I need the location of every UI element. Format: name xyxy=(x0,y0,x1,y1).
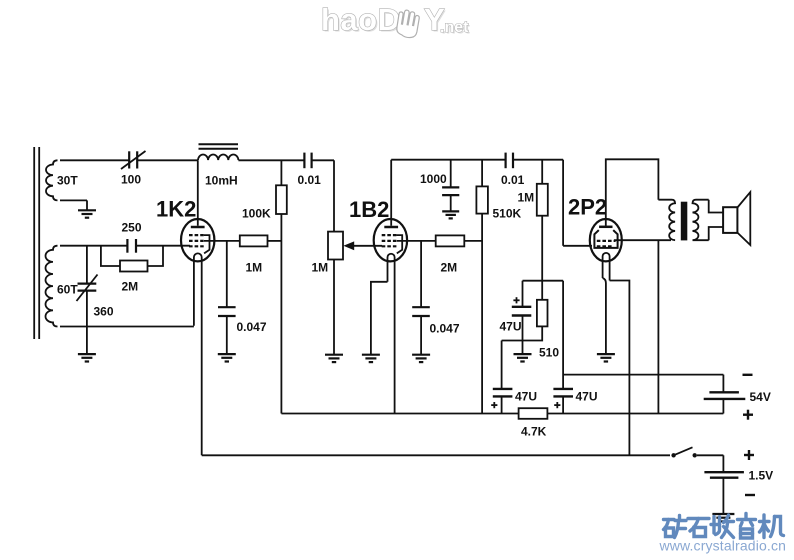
inductor 10mH xyxy=(198,154,238,160)
resistor 4.7K xyxy=(519,408,548,419)
2P2 screen wire xyxy=(614,239,671,241)
svg-text:1000: 1000 xyxy=(420,172,447,186)
svg-text:1M: 1M xyxy=(518,191,535,205)
1K2 grids (dashed) xyxy=(189,235,204,246)
switch S1 xyxy=(671,453,675,457)
47U node link xyxy=(523,280,564,282)
svg-text:10mH: 10mH xyxy=(205,174,238,188)
svg-text:1B2: 1B2 xyxy=(349,197,389,222)
svg-text:1.5V: 1.5V xyxy=(749,469,774,483)
1K2 filament xyxy=(194,253,202,455)
capacitor 47U (second, electrolytic) xyxy=(501,341,503,389)
tube U2 1B2 envelope xyxy=(374,219,407,261)
wire 510/47U to ground xyxy=(522,341,524,354)
capacitor 0.01 (first) xyxy=(304,153,311,169)
svg-text:1K2: 1K2 xyxy=(156,197,196,222)
wire 60T top (grid wire) xyxy=(60,245,127,247)
1B2 filament xyxy=(388,254,395,414)
2P2 anode bar xyxy=(599,226,612,229)
capacitor 0.01 (second) xyxy=(506,153,513,169)
wire 0.01 to 2P2 grid drop xyxy=(513,159,563,161)
output transformer T1 primary xyxy=(658,200,675,241)
wire 10mH to 0.01 xyxy=(238,159,304,161)
svg-text:60T: 60T xyxy=(57,283,78,297)
ground (tuning) xyxy=(78,354,96,361)
2P2 grids (dashed) xyxy=(597,241,616,246)
1B2 grids (dashed) xyxy=(382,235,397,246)
capacitor 0.047 (first) xyxy=(226,241,228,307)
svg-text:510: 510 xyxy=(539,346,559,360)
haoDIY.net watermark logo xyxy=(321,2,471,39)
ground (1.5V battery) xyxy=(712,514,734,521)
svg-text:0.047: 0.047 xyxy=(237,320,267,334)
2P2 plate riser xyxy=(606,159,659,225)
wire top rail left xyxy=(60,159,129,161)
pot wiper arrow to 1B2 grid xyxy=(352,245,382,247)
coil L1 30T xyxy=(46,160,58,200)
svg-text:47U: 47U xyxy=(500,320,522,334)
capacitor 250 xyxy=(127,239,136,253)
wire secondary to speaker xyxy=(709,200,723,213)
capacitor 47U (first, electrolytic) xyxy=(522,281,524,306)
ground (1B2 filament) xyxy=(362,355,380,362)
ground (47U/510) xyxy=(514,354,532,361)
1B2 filament left leg to ground xyxy=(371,282,388,354)
wire 30T bottom to ground xyxy=(60,199,87,201)
transformer core xyxy=(681,202,688,241)
resistor 2M (grid leak) loop xyxy=(101,246,120,266)
svg-text:2M: 2M xyxy=(122,280,139,294)
ground (2P2 filament) xyxy=(597,354,615,361)
svg-text:1M: 1M xyxy=(312,261,329,275)
wire 250 to 1K2 grid xyxy=(136,245,190,247)
potentiometer 1M (regeneration) xyxy=(328,232,343,260)
svg-text:250: 250 xyxy=(122,221,142,235)
1B2 plate riser xyxy=(390,160,392,226)
resistor 2M (1B2 grid) xyxy=(436,235,465,246)
svg-text:47U: 47U xyxy=(576,390,598,404)
wire 360 to ground xyxy=(86,327,88,354)
svg-text:510K: 510K xyxy=(493,207,522,221)
2P2 beam plates xyxy=(594,230,617,248)
screen/primary drop to B+ xyxy=(657,240,659,413)
resistor 100K xyxy=(280,160,282,185)
char kuang xyxy=(664,518,675,521)
trimmer capacitor 100 xyxy=(129,151,137,168)
watermark: crystalradio.cn blue logo xyxy=(664,514,784,539)
capacitor 47U (third, electrolytic) xyxy=(553,389,573,397)
resistor 1M (1K2 grid2) xyxy=(240,235,268,246)
2P2 filament to ground xyxy=(603,278,606,354)
battery 1.5V xyxy=(722,455,724,471)
svg-text:54V: 54V xyxy=(750,390,771,404)
capacitor 1000 xyxy=(450,160,452,187)
coil L2 60T xyxy=(45,246,57,327)
svg-text:100K: 100K xyxy=(242,207,271,221)
tube U1 1K2 envelope xyxy=(181,219,214,261)
1K2 output wire xyxy=(204,240,240,242)
tube U3 2P2 envelope xyxy=(590,219,622,261)
1B2 grid2 hook xyxy=(396,235,402,253)
2P2 filament feed wire xyxy=(610,281,630,456)
char ji xyxy=(762,515,765,538)
2P2 filament xyxy=(603,253,610,281)
svg-text:360: 360 xyxy=(94,305,114,319)
svg-text:0.01: 0.01 xyxy=(501,173,525,187)
ground (0.047 first) xyxy=(218,354,236,361)
svg-text:.net: .net xyxy=(440,19,469,36)
svg-text:2P2: 2P2 xyxy=(568,195,607,220)
wire 60T bottom xyxy=(60,326,194,328)
battery 54V xyxy=(722,375,724,392)
resistor 510 xyxy=(537,300,548,327)
ground (30T) xyxy=(78,210,96,217)
top rail B xyxy=(391,159,505,161)
char shi xyxy=(688,517,709,520)
1K2 grid2 hook xyxy=(204,235,210,253)
ground (pot) xyxy=(325,355,343,362)
svg-text:30T: 30T xyxy=(57,174,78,188)
1K2 anode bar xyxy=(191,226,205,229)
1B2 output wire xyxy=(397,240,436,242)
filament A+ bus xyxy=(202,454,670,456)
svg-text:www.crystalradio.cn: www.crystalradio.cn xyxy=(659,538,787,554)
B- bus xyxy=(563,374,723,376)
B+ bus xyxy=(281,413,723,415)
char yin xyxy=(744,514,747,519)
variable capacitor 360 xyxy=(86,246,88,284)
svg-text:100: 100 xyxy=(121,173,141,187)
resistor 1M (2P2 grid) xyxy=(541,160,543,184)
1B2 anode bar xyxy=(384,226,398,229)
svg-text:47U: 47U xyxy=(515,390,537,404)
speaker LS1 xyxy=(737,192,750,245)
ground (0.047 second) xyxy=(412,355,430,362)
output transformer T1 secondary xyxy=(693,200,709,241)
svg-text:4.7K: 4.7K xyxy=(521,425,547,439)
wire trimmer to 10mH xyxy=(137,159,198,161)
svg-text:haoD: haoD xyxy=(321,2,401,37)
ground (1000) xyxy=(442,211,459,218)
svg-text:1M: 1M xyxy=(246,261,263,275)
wire to 2P2 grid xyxy=(563,245,592,247)
resistor 510K xyxy=(481,160,483,187)
wire 0.01 to pot drop xyxy=(312,159,334,161)
svg-text:0.047: 0.047 xyxy=(430,322,460,336)
node: plate of 1K2 xyxy=(197,160,199,225)
ferrite rod antenna core xyxy=(33,147,35,339)
char shou xyxy=(712,517,715,534)
svg-text:0.01: 0.01 xyxy=(298,173,322,187)
capacitor 0.047 (second) xyxy=(420,241,422,307)
svg-text:2M: 2M xyxy=(441,261,458,275)
